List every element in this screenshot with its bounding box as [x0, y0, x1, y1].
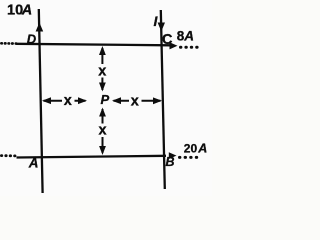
svg-text:20: 20: [184, 142, 198, 156]
wire: bottom horizontal conductor A-B: [17, 156, 167, 158]
dimension arrow: P up to top wire, length x: [97, 46, 109, 92]
label 20 A with right arrow and dashed continuation: [169, 142, 208, 160]
dimension arrow: P down to bottom wire, length x: [97, 108, 109, 156]
arrowhead: 10 A current direction (up) on left wire: [36, 23, 44, 32]
wire: right long vertical conductor (through C and B): [161, 10, 165, 189]
svg-text:10: 10: [7, 3, 23, 19]
label 8 A with right arrow and dashed continuation: [170, 29, 203, 50]
svg-text:D: D: [27, 32, 37, 47]
svg-text:x: x: [99, 122, 107, 138]
svg-text:A: A: [28, 156, 39, 171]
svg-text:x: x: [64, 93, 72, 109]
svg-text:A: A: [197, 142, 207, 156]
wire: dashed continuation of top wire to the left: [1, 42, 16, 45]
wire: dashed continuation of bottom wire to the left: [1, 154, 15, 157]
wire: left long vertical conductor (through D and A): [39, 9, 43, 193]
svg-text:x: x: [131, 93, 139, 109]
arrowhead: current I direction (down) on right wire: [158, 23, 165, 32]
svg-text:P: P: [101, 92, 110, 107]
wire: top horizontal conductor D-C: [17, 44, 171, 46]
svg-text:A: A: [21, 3, 32, 19]
dimension arrow: P to right wire, length x: [112, 93, 162, 109]
label 10 A (current in left wire): [7, 3, 32, 19]
svg-text:x: x: [98, 63, 106, 79]
dimension arrow: left wire to P, length x: [42, 93, 87, 109]
svg-text:A: A: [183, 29, 194, 44]
